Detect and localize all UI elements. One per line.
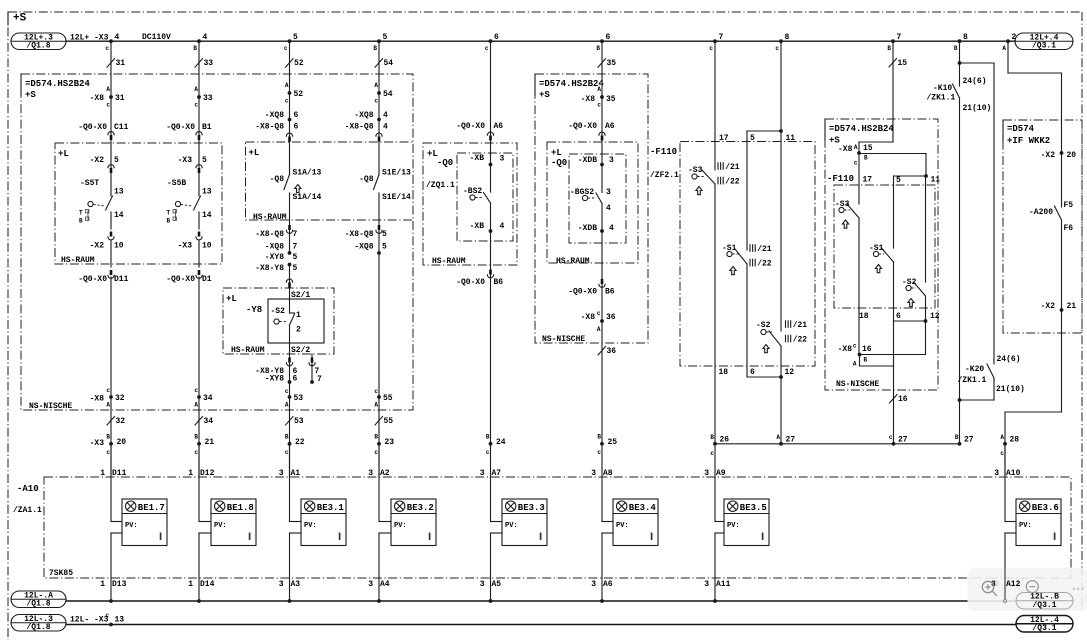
svg-text:A2: A2 (380, 469, 390, 478)
svg-text:A3: A3 (291, 580, 301, 589)
wire from bus node 2 (1007, 41, 1009, 73)
bus junction (377, 599, 381, 603)
room box +L HS-RAUM (-Q0 -XB) (423, 143, 517, 265)
svg-text:c: c (775, 45, 779, 52)
svg-text:20: 20 (117, 438, 127, 447)
terminal 25 (600, 442, 604, 446)
plug connector S2/2 main (288, 358, 291, 363)
bus junction (489, 599, 493, 603)
svg-text:7SK85: 7SK85 (49, 569, 73, 578)
svg-text:BE3.1: BE3.1 (317, 503, 345, 513)
svg-text:21(10): 21(10) (996, 385, 1025, 394)
svg-text:54: 54 (383, 90, 393, 99)
svg-text:HS-RAUM: HS-RAUM (61, 256, 95, 265)
svg-text:BE1.7: BE1.7 (138, 503, 165, 513)
svg-text:32: 32 (116, 417, 126, 426)
svg-text:16: 16 (862, 345, 872, 354)
svg-text:3: 3 (606, 188, 611, 197)
net reference 12L+.3 /Q1.8 (11, 33, 66, 50)
svg-text:-K20: -K20 (965, 365, 984, 374)
svg-text:4: 4 (203, 33, 208, 42)
svg-text:-Q8: -Q8 (270, 175, 285, 184)
svg-text:B: B (193, 45, 197, 52)
svg-text:55: 55 (383, 394, 393, 403)
wire (198, 444, 200, 522)
wire (378, 444, 380, 522)
svg-text:c: c (854, 160, 858, 167)
svg-text:-XQ8: -XQ8 (265, 111, 284, 120)
svg-text:/ZK1.1: /ZK1.1 (927, 94, 956, 103)
wire (859, 355, 861, 367)
wire (378, 193, 380, 253)
svg-text:-F110: -F110 (827, 174, 854, 184)
svg-text:34: 34 (204, 417, 214, 426)
wire column 11-12 (F110 right) (925, 176, 927, 282)
svg-text:7: 7 (719, 33, 724, 42)
svg-text:A10: A10 (1006, 469, 1021, 478)
terminal -X8:33 (197, 95, 201, 99)
stub wire 7 (311, 354, 313, 382)
svg-text:-X8: -X8 (581, 313, 596, 322)
svg-text:3: 3 (704, 469, 709, 478)
svg-text:-Q0-X0: -Q0-X0 (456, 278, 485, 287)
wire column 5-6 (F110 right) (893, 176, 895, 248)
bus node 5 at x=289.5 (288, 39, 292, 43)
function box -F110 /ZF2.1 (left) (680, 142, 815, 367)
wire column 17-18 (F110 right) (858, 153, 860, 204)
svg-text:-X8: -X8 (90, 94, 105, 103)
wire (110, 444, 112, 522)
svg-text:c: c (486, 449, 490, 456)
svg-text:-X8-Q8: -X8-Q8 (345, 230, 374, 239)
svg-text:A11: A11 (716, 580, 731, 589)
svg-text:6: 6 (294, 111, 299, 120)
svg-text:PV:: PV: (304, 522, 317, 530)
svg-text:A8: A8 (603, 469, 613, 478)
wire column 17-18 (F110 left) (714, 41, 716, 170)
room box +L HS-RAUM (S5 switches) (55, 143, 222, 264)
net reference 12L-.4 /Q3.1 (1016, 616, 1073, 633)
svg-text:-X3: -X3 (178, 156, 193, 165)
svg-text:5: 5 (896, 176, 901, 185)
svg-text:HS-RAUM: HS-RAUM (231, 346, 265, 355)
wire bottom jog (747, 376, 781, 378)
net 12L- reference B (faded, on top) (1016, 593, 1073, 610)
svg-text:+S: +S (539, 90, 550, 100)
svg-text:c: c (374, 388, 378, 395)
wire column A2 (378, 41, 380, 175)
svg-text:12: 12 (785, 368, 795, 377)
wire (1004, 444, 1006, 522)
svg-text:B: B (106, 434, 110, 441)
function box -F110 (right) (834, 185, 935, 308)
svg-text:c: c (889, 434, 893, 441)
plug connector B6 (489, 270, 492, 275)
svg-text:B: B (864, 155, 868, 162)
wire (289, 444, 291, 522)
svg-text:A: A (194, 86, 198, 93)
svg-text:1: 1 (296, 311, 301, 320)
svg-text:12L+ -X3: 12L+ -X3 (70, 34, 109, 43)
viewer toolbar overlay (968, 568, 1087, 612)
svg-text:+S: +S (829, 136, 840, 146)
svg-text:3: 3 (704, 580, 709, 589)
svg-text:-S2: -S2 (271, 307, 286, 316)
svg-text:B: B (596, 45, 600, 52)
svg-text:c: c (284, 45, 288, 52)
svg-text:12: 12 (930, 312, 940, 321)
terminal 34 (197, 395, 201, 399)
wire (378, 253, 380, 444)
svg-text:+L: +L (226, 294, 237, 304)
wire (490, 444, 492, 522)
zoom-in icon (982, 581, 997, 596)
svg-text:HS-RAUM: HS-RAUM (556, 257, 590, 266)
indicator lamp -BE3.2 (391, 499, 436, 546)
svg-text:c: c (709, 45, 713, 52)
terminal -X8:36 (600, 319, 604, 323)
terminal 54 (377, 91, 381, 95)
svg-text:14: 14 (202, 211, 212, 220)
node 27 (958, 442, 962, 446)
wire feed to 5/11 (859, 153, 926, 155)
svg-text:-X3: -X3 (90, 439, 105, 448)
svg-text:1: 1 (100, 469, 105, 478)
svg-text:-Q0: -Q0 (437, 158, 453, 168)
isolating point 54 (375, 59, 383, 67)
bus node 7 at x=715 (713, 39, 717, 43)
svg-text:5: 5 (293, 264, 298, 273)
more icon (1073, 588, 1084, 591)
svg-text:3: 3 (480, 580, 485, 589)
plug connector -X8-Q8:6 (286, 133, 292, 136)
svg-text:7: 7 (897, 33, 902, 42)
wire row 26/27 (715, 443, 960, 445)
wire column A1 (289, 41, 291, 175)
svg-text:=D574.HS2B24: =D574.HS2B24 (25, 79, 90, 89)
svg-text:27: 27 (786, 436, 796, 445)
svg-text:-K10: -K10 (933, 84, 952, 93)
svg-text:c: c (106, 102, 110, 109)
svg-text:31: 31 (115, 94, 125, 103)
svg-text:-Q0: -Q0 (551, 158, 567, 168)
svg-text:-Q0-X0: -Q0-X0 (166, 275, 195, 284)
wire (490, 231, 492, 444)
svg-text:/21: /21 (757, 245, 772, 254)
isolating point 35 (598, 59, 606, 67)
svg-text:/21: /21 (793, 321, 808, 330)
svg-text:A: A (374, 82, 378, 89)
svg-text:13: 13 (115, 616, 125, 625)
svg-text:-Q0-X0: -Q0-X0 (568, 288, 597, 297)
bus wire 12L-.A (66, 600, 1016, 602)
svg-text:5: 5 (750, 134, 755, 143)
plug connector D1 (198, 270, 201, 275)
svg-text:-XY8: -XY8 (265, 253, 284, 262)
svg-text:3: 3 (368, 469, 373, 478)
wire column A7 (490, 41, 492, 164)
svg-text:21: 21 (1067, 302, 1077, 311)
indicator lamp -BE3.1 (301, 499, 346, 546)
isolating point 55 (375, 417, 383, 426)
node 26 (713, 442, 717, 446)
terminal -X8:32 (109, 395, 113, 399)
svg-text:B: B (194, 434, 198, 441)
wire (198, 277, 200, 397)
svg-text:c: c (374, 449, 378, 456)
svg-text:c: c (597, 310, 601, 317)
svg-text:BE3.4: BE3.4 (629, 503, 657, 513)
svg-text:5: 5 (382, 243, 387, 252)
plug connector -X2:10 (110, 232, 113, 237)
bus node 7 at x=893 (891, 39, 895, 43)
svg-text:5: 5 (382, 230, 387, 239)
svg-text:S1A/14: S1A/14 (293, 193, 322, 202)
terminal -X8:15 (857, 151, 861, 155)
bus node 4 at x=199 (197, 39, 201, 43)
svg-text:8: 8 (785, 33, 790, 42)
wire (860, 354, 926, 356)
svg-text:34: 34 (203, 394, 213, 403)
svg-text:-BGS2: -BGS2 (570, 188, 594, 197)
indicator lamp -BE3.6 (1016, 499, 1061, 546)
svg-text:-S2: -S2 (756, 321, 771, 330)
bus node 4 at x=111 (109, 39, 113, 43)
svg-text:S1A/13: S1A/13 (293, 169, 322, 178)
isolating point 15 (889, 59, 897, 68)
wire (198, 444, 200, 477)
svg-text:A: A (1000, 434, 1004, 441)
svg-text:-X8: -X8 (838, 145, 853, 154)
wire A12 (over overlay) (1004, 567, 1006, 600)
svg-text:HS-RAUM: HS-RAUM (432, 257, 466, 266)
svg-text:S2/2: S2/2 (291, 346, 310, 355)
svg-text:c: c (597, 102, 601, 109)
svg-text:c: c (485, 45, 489, 52)
wire (601, 204, 603, 232)
svg-text:1: 1 (188, 580, 193, 589)
svg-text:/ZA1.1: /ZA1.1 (13, 506, 42, 515)
svg-text:c: c (194, 102, 198, 109)
isolating point 52 (286, 59, 294, 67)
svg-text:3: 3 (279, 469, 284, 478)
svg-text:D1: D1 (202, 275, 212, 284)
isolating point 31 (107, 59, 115, 67)
bus junction (197, 599, 201, 603)
wire (110, 240, 112, 267)
location box =D574.HS2B24 (middle) (535, 74, 648, 343)
svg-text:27: 27 (964, 436, 974, 445)
svg-text:-F110: -F110 (650, 147, 677, 157)
wire (490, 203, 492, 231)
plug connector A6 (487, 132, 493, 135)
plug connector -X3:5 (196, 165, 202, 168)
svg-text:F5: F5 (1064, 201, 1074, 210)
terminal -X3:20 (109, 442, 113, 446)
svg-text:2: 2 (1012, 33, 1017, 42)
svg-text:8: 8 (963, 33, 968, 42)
svg-text:/Q1.8: /Q1.8 (26, 41, 50, 50)
svg-text:10: 10 (114, 242, 124, 251)
svg-text:A9: A9 (716, 469, 726, 478)
isolating point 34 (195, 417, 203, 426)
svg-text:3: 3 (279, 580, 284, 589)
wire column 11-12 (780, 41, 782, 331)
svg-text:24(6): 24(6) (963, 77, 987, 86)
wire bottom jog (894, 320, 926, 322)
svg-text:-XDB: -XDB (578, 156, 597, 165)
svg-text:26: 26 (720, 436, 730, 445)
node 27 (779, 442, 783, 446)
node 27 (892, 442, 896, 446)
wire (110, 397, 112, 444)
indicator lamp -BE3.4 (613, 499, 658, 546)
terminal 52 (288, 91, 292, 95)
svg-text:53: 53 (294, 417, 304, 426)
svg-text:-Q8: -Q8 (359, 175, 374, 184)
svg-text:A: A (374, 402, 378, 409)
svg-text:BE3.2: BE3.2 (407, 503, 434, 513)
svg-text:28: 28 (1010, 436, 1020, 445)
terminal 55 (377, 395, 381, 399)
svg-text:A6: A6 (605, 122, 615, 131)
svg-text:c: c (853, 343, 857, 350)
svg-text:-X3: -X3 (178, 242, 193, 251)
svg-text:-XDB: -XDB (578, 224, 597, 233)
svg-text:-X2: -X2 (90, 242, 105, 251)
svg-text:6: 6 (606, 33, 611, 42)
svg-text:55: 55 (384, 417, 394, 426)
svg-text:B: B (864, 357, 868, 364)
module box -A10 /ZA1.1 (44, 477, 1071, 578)
wire (289, 444, 291, 477)
wire branch K20 (960, 62, 995, 64)
device box -Y8 (268, 299, 324, 343)
svg-text:c: c (285, 388, 289, 395)
plug connector C11 (108, 132, 114, 135)
svg-text:A4: A4 (380, 580, 390, 589)
plug connector S2/1 (286, 279, 292, 282)
svg-text:c: c (597, 449, 601, 456)
plug connector -X8-Q8:7 top (288, 225, 291, 230)
svg-text:54: 54 (384, 59, 394, 68)
svg-text:5: 5 (114, 156, 119, 165)
svg-text:-XB: -XB (470, 222, 485, 231)
wire (1005, 411, 1062, 413)
svg-text:-X2: -X2 (1041, 302, 1056, 311)
svg-text:PV:: PV: (394, 522, 407, 530)
svg-text:C11: C11 (114, 123, 129, 132)
location box =D574.HS2B24 (right) (825, 119, 938, 390)
indicator lamp -BE3.3 (502, 499, 547, 546)
svg-text:=D574.HS2B24: =D574.HS2B24 (829, 124, 894, 134)
svg-text:B: B (955, 434, 959, 441)
isolating point 16 (890, 395, 898, 404)
bus junction (600, 599, 604, 603)
plug connector -X8-Q8:5 top (378, 225, 381, 230)
svg-text:25: 25 (608, 438, 618, 447)
svg-text:PV:: PV: (616, 522, 629, 530)
svg-text:c: c (710, 450, 714, 457)
svg-text:-Q0-X0: -Q0-X0 (78, 275, 107, 284)
svg-text:3: 3 (480, 469, 485, 478)
svg-text:PV:: PV: (505, 522, 518, 530)
location box =D574 +IF WKK2 (1003, 120, 1082, 333)
svg-text:/Q3.1: /Q3.1 (1032, 41, 1056, 50)
terminal -XDB:3 (600, 163, 604, 167)
isolating point 36 (598, 347, 606, 356)
svg-text:/Q1.8: /Q1.8 (26, 623, 50, 632)
svg-text:17: 17 (863, 176, 873, 185)
terminal -X3:13 (109, 623, 113, 627)
svg-text:A7: A7 (492, 469, 502, 478)
svg-text:6: 6 (750, 368, 755, 377)
svg-text:PV:: PV: (727, 522, 740, 530)
svg-text:c: c (374, 98, 378, 105)
svg-text:/21: /21 (725, 163, 740, 172)
svg-text:D11: D11 (112, 469, 127, 478)
bus node 8 at x=781 (779, 39, 783, 43)
svg-text:12L- -X3: 12L- -X3 (70, 616, 109, 625)
wire (198, 212, 200, 229)
svg-text:D13: D13 (112, 580, 127, 589)
svg-text:7: 7 (293, 230, 298, 239)
svg-text:/Q1.8: /Q1.8 (26, 599, 50, 608)
svg-text:-Q0-X0: -Q0-X0 (568, 122, 597, 131)
svg-text:4: 4 (606, 204, 611, 213)
terminal 53 (288, 395, 292, 399)
svg-text:21: 21 (205, 438, 215, 447)
svg-text:D14: D14 (200, 580, 215, 589)
svg-text:=D574: =D574 (1007, 124, 1035, 134)
svg-text:c: c (105, 612, 109, 619)
svg-text:52: 52 (294, 90, 304, 99)
terminal -XDB:4 (600, 229, 604, 233)
wire (110, 444, 112, 477)
terminal -X3:21 (197, 442, 201, 446)
svg-text:-X2: -X2 (1041, 151, 1056, 160)
svg-text:52: 52 (294, 59, 304, 68)
svg-text:27: 27 (898, 436, 908, 445)
wire top edge (747, 130, 781, 132)
svg-text:32: 32 (115, 394, 125, 403)
terminal box -XB (457, 153, 513, 241)
svg-text:+S: +S (25, 90, 36, 100)
svg-text:4: 4 (609, 224, 614, 233)
svg-text:-XQ8: -XQ8 (265, 243, 284, 252)
svg-text:4: 4 (115, 33, 120, 42)
svg-text:A: A (106, 86, 110, 93)
svg-text:6: 6 (896, 312, 901, 321)
wire column A8 (601, 41, 603, 164)
wire column K10 (959, 41, 961, 86)
terminal -X2:20 (1060, 151, 1064, 155)
net reference 12L+.4 /Q3.1 (1015, 33, 1073, 50)
plug connector A6 (599, 132, 605, 135)
svg-text:DC110V: DC110V (142, 33, 171, 42)
svg-text:35: 35 (606, 95, 616, 104)
svg-text:-S5B: -S5B (167, 179, 186, 188)
svg-text:/22: /22 (757, 260, 772, 269)
svg-text:B: B (285, 434, 289, 441)
room box +L HS-RAUM (Q8 contacts) (246, 142, 414, 220)
svg-text:S1E/14: S1E/14 (382, 193, 411, 202)
svg-text:A: A (194, 402, 198, 409)
svg-text:A: A (285, 402, 289, 409)
location box =D574.HS2B24 (left) (21, 74, 413, 410)
plug connector -X2:5 (108, 165, 114, 168)
wire column 15 (892, 41, 894, 142)
